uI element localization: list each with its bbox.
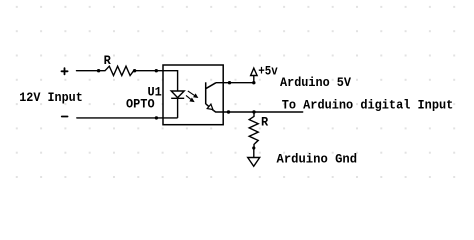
junction (97, 69, 100, 72)
wire (77, 117, 157, 119)
junction (133, 69, 136, 72)
junction (252, 81, 255, 84)
svg-text:Arduino 5V: Arduino 5V (280, 75, 351, 90)
svg-text:12V Input: 12V Input (19, 90, 83, 105)
junction (155, 69, 158, 72)
resistor R2 (249, 112, 258, 148)
junction (227, 110, 230, 113)
optocoupler U1 box (163, 65, 223, 125)
junction (228, 81, 231, 84)
phototransistor Q1 inside U1 (206, 82, 224, 112)
svg-text:R: R (104, 53, 111, 68)
svg-text:Arduino Gnd: Arduino Gnd (277, 152, 358, 167)
resistor R1 (99, 66, 157, 75)
+5V power symbol (251, 68, 258, 83)
wire (156, 71, 177, 92)
wire (216, 82, 254, 84)
+ terminal (62, 68, 68, 74)
junction (155, 116, 158, 119)
ground symbol (Arduino Gnd) (248, 148, 260, 166)
junction (252, 110, 255, 113)
svg-text:+5v: +5v (258, 64, 278, 79)
LED light arrows (186, 91, 197, 102)
svg-text:To Arduino digital Input: To Arduino digital Input (282, 97, 454, 112)
wire (223, 111, 303, 113)
svg-text:OPTO: OPTO (126, 97, 155, 112)
wire (156, 117, 177, 119)
svg-text:R: R (261, 115, 268, 130)
wire (77, 70, 99, 72)
- terminal (62, 116, 68, 118)
LED D1 inside U1 (171, 91, 184, 118)
junction (252, 146, 255, 149)
